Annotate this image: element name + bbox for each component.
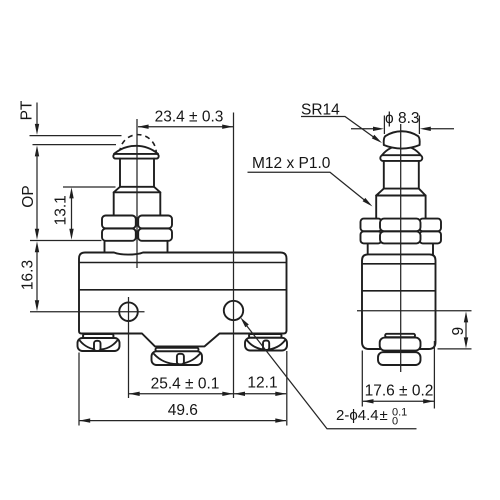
leader 2-phi4.4 arrow bbox=[240, 317, 249, 327]
terminal screw head near (side) bbox=[380, 338, 421, 351]
hex nut row 2 right facet bbox=[420, 231, 442, 243]
pressed-position reference line bbox=[33, 144, 117, 146]
PT upper arrow bbox=[36, 103, 38, 125]
svg-text:2-ϕ4.4: 2-ϕ4.4 bbox=[336, 407, 379, 424]
svg-text:17.6 ± 0.2: 17.6 ± 0.2 bbox=[365, 382, 434, 399]
case lower feature line + 9-dim extension bbox=[357, 310, 472, 312]
terminal washer (side) bbox=[385, 334, 415, 337]
terminal screw head far (side) bbox=[378, 352, 421, 365]
crown band bbox=[380, 155, 422, 161]
plunger cap rim bbox=[113, 154, 158, 159]
dashed free-position plunger arc bbox=[120, 135, 156, 153]
PT/OP lower arrow up bbox=[35, 145, 39, 156]
phi8.3 right arrow bbox=[430, 128, 454, 130]
left terminal screw head bbox=[78, 338, 120, 351]
left hole vertical centerline / extension bbox=[128, 297, 130, 398]
right terminal washer bbox=[249, 334, 282, 338]
hex nut row 1 right facet bbox=[138, 216, 172, 229]
hex nut row 1 left facet bbox=[102, 216, 136, 229]
middle terminal screw head bbox=[152, 351, 203, 365]
phi8.3 extension bars bbox=[384, 116, 419, 135]
crown arc bbox=[382, 146, 421, 156]
middle terminal washer bbox=[156, 348, 199, 352]
plunger shaft bbox=[120, 159, 154, 187]
right mounting hole bbox=[224, 301, 243, 320]
hex nut row 2 middle facet bbox=[380, 231, 421, 243]
hex nut row 1 right facet bbox=[420, 219, 442, 232]
phi8.3 left arrow bbox=[351, 128, 374, 130]
case outline (side) bbox=[362, 254, 436, 349]
dimension 23.4 line bbox=[138, 126, 233, 128]
dimension 13.1 line bbox=[71, 193, 73, 234]
svg-text:23.4 ± 0.3: 23.4 ± 0.3 bbox=[155, 109, 224, 126]
bushing neck into case bbox=[105, 241, 168, 253]
hex nut row 2 left facet bbox=[361, 231, 382, 243]
shaft (side) bbox=[384, 161, 419, 189]
right screw slot bbox=[263, 341, 269, 351]
svg-text:±: ± bbox=[380, 407, 388, 424]
svg-text:M12 x P1.0: M12 x P1.0 bbox=[252, 155, 331, 172]
dimension 17.6 line bbox=[363, 400, 434, 402]
plunger shaft chamfer bbox=[114, 187, 161, 193]
plunger dome cap (side) bbox=[384, 131, 420, 148]
dimension 9 line bbox=[465, 317, 467, 343]
right screw barrel arc bbox=[247, 340, 285, 349]
dimension 12.1 line bbox=[234, 393, 286, 395]
left mounting hole bbox=[119, 302, 138, 321]
nut-bottom reference line bbox=[30, 240, 102, 242]
left hole horizontal centerline bbox=[30, 311, 145, 313]
left screw slot bbox=[94, 341, 101, 351]
svg-text:OP: OP bbox=[20, 185, 37, 207]
svg-text:0: 0 bbox=[392, 416, 398, 428]
hex nut row 1 left facet bbox=[361, 219, 382, 232]
threaded bushing bbox=[114, 192, 161, 215]
svg-text:9: 9 bbox=[450, 327, 467, 336]
hex nut row 2 right facet bbox=[138, 229, 172, 241]
middle screw barrel arc bbox=[154, 354, 200, 364]
svg-text:12.1: 12.1 bbox=[247, 374, 277, 391]
svg-text:16.3: 16.3 bbox=[20, 260, 37, 290]
right hole vertical extension line bbox=[233, 113, 235, 399]
body-edge extension lines bottom bbox=[79, 351, 287, 426]
switch case outline bbox=[79, 253, 287, 347]
17.6 extension lines bbox=[362, 341, 434, 409]
plunger centerline bbox=[136, 119, 138, 268]
middle screw slot bbox=[177, 354, 184, 365]
free-position reference line (top) bbox=[30, 135, 122, 137]
side view centerline bbox=[400, 124, 402, 372]
case mid line (side) bbox=[362, 290, 436, 292]
dimension OP vertical line bbox=[36, 150, 38, 230]
svg-text:13.1: 13.1 bbox=[53, 195, 70, 225]
left screw barrel arc bbox=[80, 341, 117, 350]
hex nut row 2 left facet bbox=[102, 229, 136, 241]
case mid line bbox=[79, 289, 287, 291]
dimension 25.4 line bbox=[129, 393, 233, 395]
threaded bushing (side) bbox=[376, 196, 425, 219]
dimension 16.3 line bbox=[36, 247, 38, 301]
hex nut row 1 middle facet bbox=[380, 219, 421, 232]
shaft chamfer (side) bbox=[376, 189, 425, 196]
left terminal washer bbox=[83, 334, 114, 338]
M12 leader bbox=[248, 172, 365, 200]
right terminal screw head bbox=[245, 338, 287, 351]
SR14 leader bbox=[301, 117, 374, 138]
dimension 49.6 line bbox=[80, 420, 287, 422]
bushing neck into case (side) bbox=[368, 243, 433, 254]
svg-text:PT: PT bbox=[19, 100, 36, 120]
case top band line bbox=[79, 262, 287, 264]
svg-text:49.6: 49.6 bbox=[168, 402, 198, 419]
9-dim lower extension line bbox=[438, 348, 472, 350]
svg-text:25.4 ± 0.1: 25.4 ± 0.1 bbox=[151, 375, 220, 392]
13.1 top extension line bbox=[63, 186, 116, 188]
svg-text:ϕ 8.3: ϕ 8.3 bbox=[385, 110, 420, 127]
plunger dome cap bbox=[114, 146, 158, 154]
case top band line (side) bbox=[362, 263, 436, 265]
